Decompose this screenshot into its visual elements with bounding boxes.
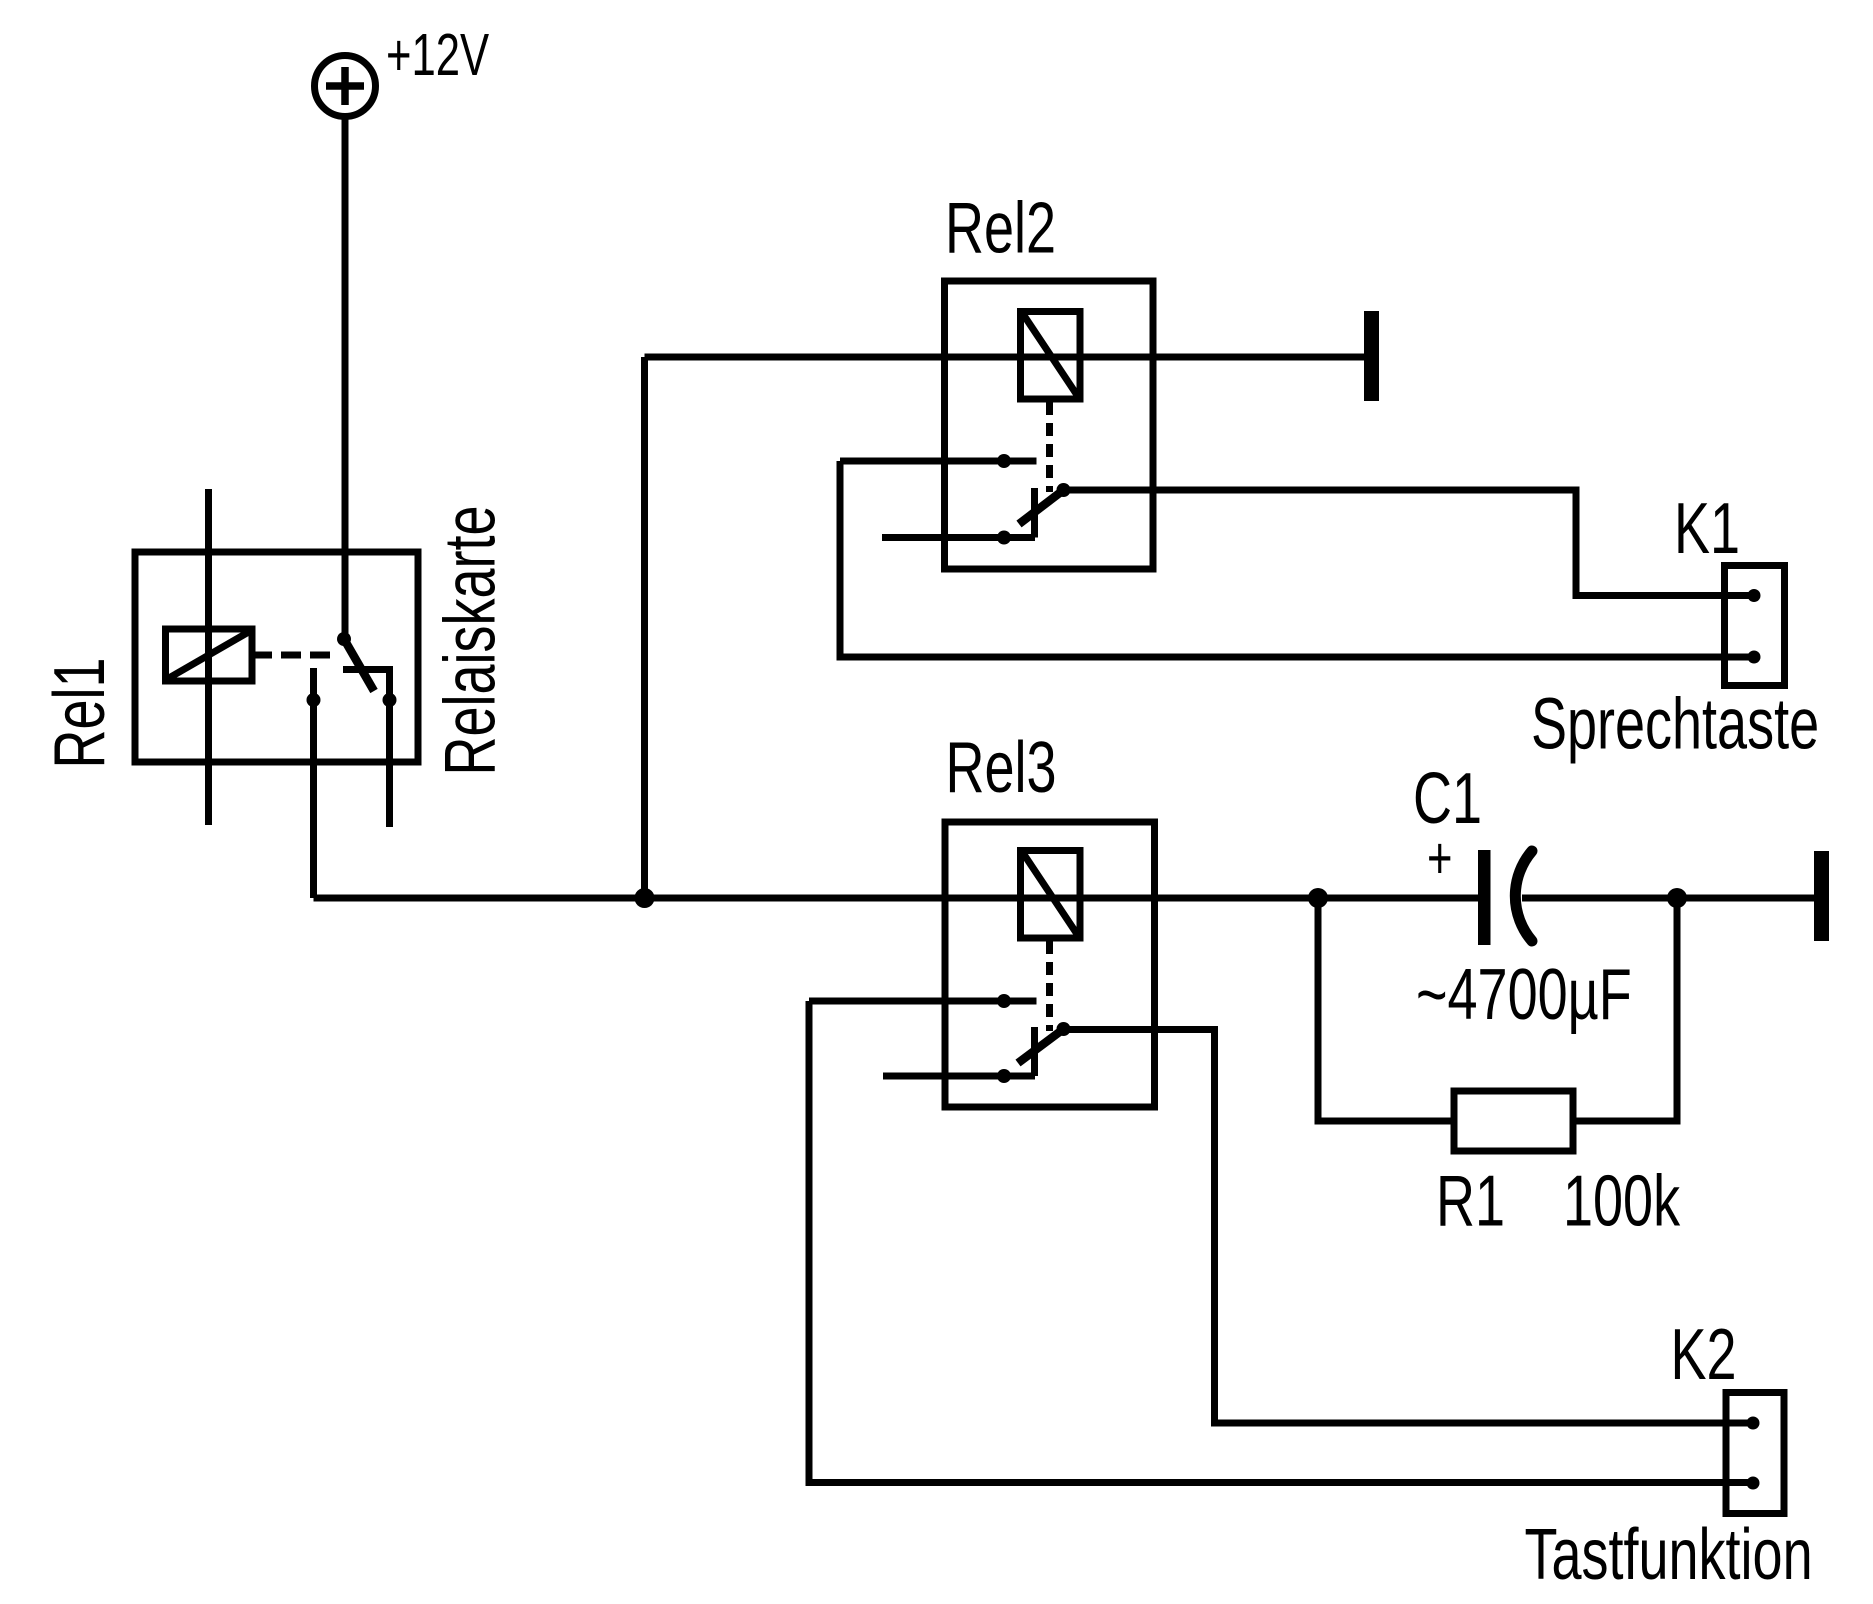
Rel3 upper contact	[809, 994, 1037, 1008]
svg-text:Tastfunktion: Tastfunktion	[1525, 1515, 1813, 1595]
resistor R1	[1454, 1091, 1573, 1151]
Rel2 dashed actuator link	[1046, 402, 1053, 492]
relay Rel1 box	[135, 552, 418, 762]
svg-text:Rel3: Rel3	[946, 728, 1057, 808]
junction main net / Rel2 coil	[635, 888, 655, 908]
Rel1 switch common pivot	[337, 632, 351, 646]
svg-text:Rel1: Rel1	[40, 657, 120, 768]
Rel3 dashed actuator link	[1046, 941, 1053, 1031]
junction main net / R1 left branch	[1308, 888, 1328, 908]
relay Rel2 box	[945, 281, 1154, 569]
svg-text:K1: K1	[1674, 489, 1740, 569]
Rel2 switch blade	[1019, 490, 1064, 524]
svg-text:~4700µF: ~4700µF	[1416, 955, 1632, 1035]
connector K1	[1725, 566, 1785, 686]
wire +12V to Rel1 common	[342, 116, 349, 639]
svg-text:+12V: +12V	[386, 22, 489, 88]
svg-text:100k: 100k	[1563, 1161, 1680, 1241]
junction main net / R1 right branch	[1667, 888, 1687, 908]
Rel3 coil	[1021, 851, 1081, 939]
Rel1 switch blade	[344, 639, 374, 691]
ground bar at C1	[1814, 851, 1829, 941]
wire Rel3 common to K2 pin 1	[1064, 1030, 1750, 1424]
wire R1 left branch	[1318, 898, 1454, 1121]
svg-text:Sprechtaste: Sprechtaste	[1531, 684, 1819, 764]
Rel3 lower contact (L-shaped stub)	[883, 1027, 1035, 1083]
wire Rel3 upper contact to K2 pin 2	[809, 1001, 1749, 1483]
Rel1 NC contact + wire down to main net	[307, 668, 321, 898]
capacitor C1 curved negative plate	[1515, 851, 1532, 941]
Rel2 lower contact (L-shaped stub)	[882, 488, 1035, 545]
Rel2 switch common pivot	[1057, 483, 1071, 497]
Rel2 coil	[1021, 312, 1081, 400]
Rel1 coil wire	[205, 489, 212, 825]
svg-text:R1: R1	[1436, 1161, 1505, 1241]
connector K2	[1726, 1393, 1784, 1514]
Rel3 switch blade	[1018, 1029, 1064, 1063]
wire Rel2 upper contact to K1 pin 2	[840, 461, 1750, 657]
Rel1 NO contact (L-shaped)	[343, 666, 397, 827]
ground bar at Rel2 coil	[1364, 311, 1379, 401]
wire R1 right branch	[1573, 898, 1677, 1121]
svg-text:+: +	[1427, 825, 1452, 891]
svg-text:Rel2: Rel2	[945, 188, 1056, 268]
capacitor C1 positive plate	[1478, 850, 1491, 945]
wire Rel2 common to K1 pin 1	[1064, 490, 1751, 596]
Rel1 coil	[166, 629, 253, 681]
Rel3 switch common pivot	[1057, 1022, 1071, 1036]
svg-text:Relaiskarte: Relaiskarte	[430, 505, 510, 775]
wire Rel2 coil to main net	[641, 357, 648, 898]
wire C1 to ground bar	[1522, 895, 1814, 902]
+12V supply symbol	[315, 56, 376, 117]
Rel2 upper contact	[840, 454, 1037, 468]
relay Rel3 box	[945, 822, 1155, 1107]
svg-text:K2: K2	[1671, 1315, 1737, 1395]
Rel1 coil-to-switch dashed link	[252, 652, 337, 659]
Rel2 coil wire	[645, 354, 1365, 361]
main horizontal net wire	[314, 895, 1479, 902]
